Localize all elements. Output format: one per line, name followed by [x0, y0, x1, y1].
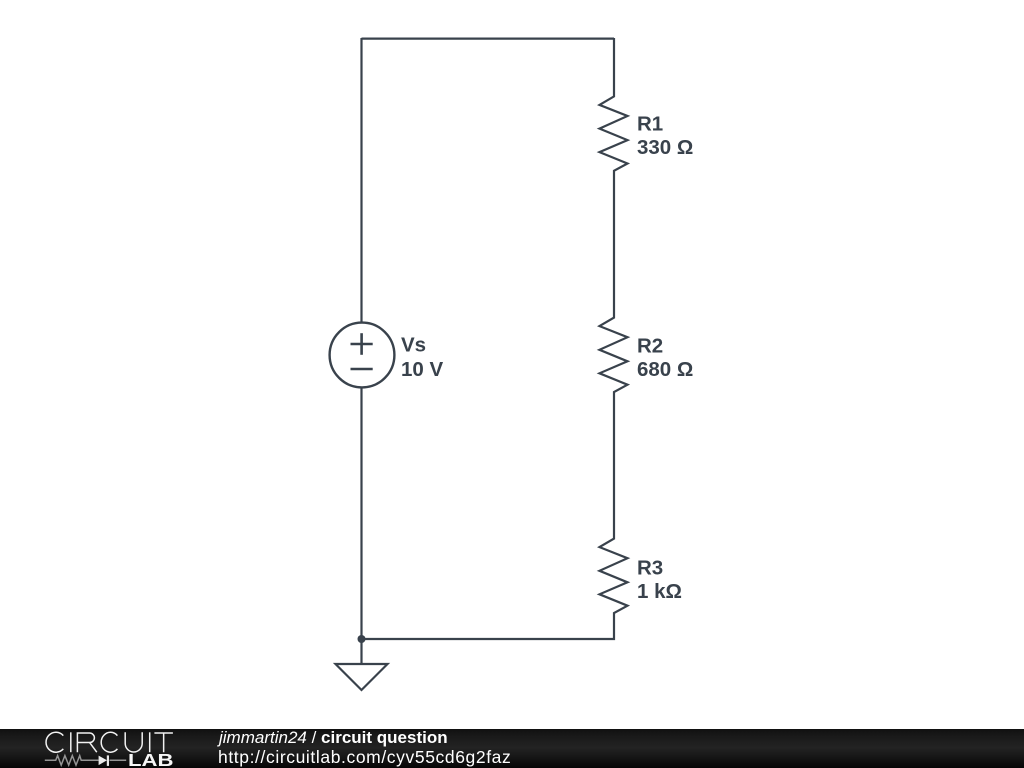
svg-text:R3: R3 [637, 557, 663, 580]
svg-text:Vs: Vs [401, 334, 426, 357]
svg-text:LAB: LAB [128, 750, 174, 768]
svg-text:jimmartin24 / circuit question: jimmartin24 / circuit question [217, 728, 448, 747]
svg-text:R1: R1 [637, 113, 663, 136]
svg-text:680 Ω: 680 Ω [637, 358, 693, 381]
svg-text:http://circuitlab.com/cyv55cd6: http://circuitlab.com/cyv55cd6g2faz [218, 747, 511, 767]
svg-text:1 kΩ: 1 kΩ [637, 580, 682, 603]
svg-text:330 Ω: 330 Ω [637, 136, 693, 159]
svg-text:10 V: 10 V [401, 358, 443, 381]
svg-text:R2: R2 [637, 335, 663, 358]
